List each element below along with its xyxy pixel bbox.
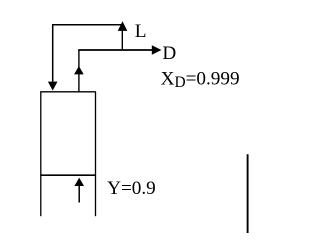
arrowhead: L branch (up) — [118, 21, 128, 31]
arrowhead: D outlet (right) — [152, 45, 162, 54]
svg-text:L: L — [135, 21, 147, 42]
wire: vapor vertical line from column top — [78, 50, 80, 92]
wire: vertical edge line at right margin — [247, 154, 249, 233]
wire: D horizontal line — [78, 49, 153, 51]
svg-text:D: D — [162, 43, 176, 64]
wire: top horizontal reflux line — [52, 24, 122, 26]
arrowhead: reflux into column top (down) — [48, 82, 58, 91]
wire: L branch vertical stem — [121, 28, 123, 50]
column: top edge — [40, 91, 95, 93]
svg-text:XD=0.999: XD=0.999 — [161, 69, 240, 91]
wire: left vertical reflux line — [52, 25, 54, 83]
column: left wall — [40, 92, 42, 217]
column: internal divider line — [40, 174, 95, 176]
wire: bottom vapor arrow stem — [78, 185, 80, 203]
arrowhead: bottom vapor (up) — [74, 178, 84, 186]
arrowhead: vapor flow (up) — [74, 66, 84, 74]
column: right wall — [95, 92, 97, 217]
svg-text:Y=0.9: Y=0.9 — [107, 178, 156, 199]
